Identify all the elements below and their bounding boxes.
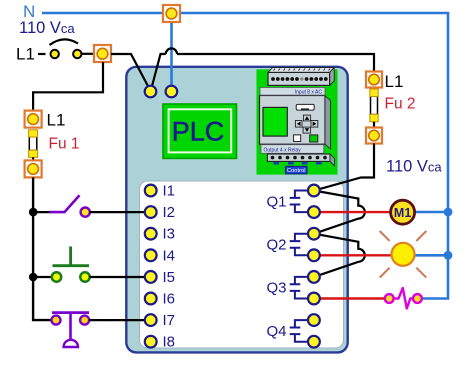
wire N bus blue	[42, 13, 448, 299]
relay contact Q1	[267, 185, 320, 218]
relay contact Q4	[267, 314, 320, 347]
svg-text:Q3: Q3	[267, 280, 287, 297]
terminal X6 below Fu2	[366, 128, 382, 144]
node rail-S1	[29, 208, 38, 217]
svg-text:Output 4 x Relay: Output 4 x Relay	[264, 147, 302, 153]
svg-text:110 Vca: 110 Vca	[19, 19, 75, 37]
svg-text:Q4: Q4	[267, 323, 287, 340]
input labels I1-I8	[163, 183, 176, 351]
svg-text:PLC: PLC	[172, 117, 225, 147]
svg-text:L1: L1	[385, 72, 404, 91]
wire blue drop to PLC	[170, 22, 173, 88]
svg-text:M1: M1	[394, 206, 411, 220]
wire rail to S1	[33, 211, 50, 213]
svg-text:I8: I8	[163, 334, 176, 351]
pushbutton S2 green	[52, 247, 90, 282]
svg-text:Fu 2: Fu 2	[385, 96, 416, 113]
wire Q2 to lamp red	[320, 254, 394, 256]
wire L1 to breaker	[38, 53, 46, 55]
svg-text:L1: L1	[47, 110, 66, 129]
svg-text:110 Vca: 110 Vca	[386, 158, 442, 176]
wire X1 to PLC terminal	[111, 54, 150, 89]
wire Fu2 down to Q1	[315, 144, 374, 191]
PLC input terminal A1	[145, 86, 157, 98]
svg-text:Q2: Q2	[267, 237, 287, 254]
relay contact Q3	[267, 271, 320, 304]
wire Q2 to Q3 with hop over lamp wire	[314, 234, 365, 277]
svg-text:I2: I2	[163, 204, 176, 221]
limit switch S3 purple	[52, 313, 90, 347]
PLC inputs I1-I8	[145, 185, 157, 348]
wire S3 to I7	[89, 319, 145, 321]
svg-text:I5: I5	[163, 269, 176, 286]
wire Q1 to Q2 with hop over M1 wire	[314, 191, 365, 234]
wire S1 to I2	[90, 211, 145, 213]
svg-text:Control: Control	[287, 168, 306, 174]
wire hop over blue drop	[166, 48, 177, 54]
PLC input terminal A2	[166, 86, 178, 98]
svg-text:L1: L1	[16, 45, 35, 64]
svg-text:I1: I1	[163, 183, 176, 200]
wire breaker to terminal	[82, 53, 94, 55]
fuse Fu1	[29, 130, 38, 161]
svg-text:Q1: Q1	[267, 193, 287, 210]
terminal X4 below Fu1	[25, 160, 42, 177]
breaker Q0	[50, 39, 82, 58]
terminal X1	[94, 45, 111, 62]
svg-text:Fu 1: Fu 1	[49, 136, 80, 153]
PLC module picture U1	[257, 68, 338, 175]
wire PLC terminal up and over to Fu2, hop over blue	[152, 54, 375, 88]
motor M1	[391, 200, 415, 224]
svg-text:I6: I6	[163, 291, 176, 308]
node bus-M1	[444, 208, 453, 217]
wire Q3 to heater red	[320, 297, 385, 299]
wire rail to S2	[33, 276, 52, 278]
terminal X2 on N line	[163, 5, 180, 22]
wire S2 to I5	[90, 276, 145, 278]
svg-text:I7: I7	[163, 312, 176, 329]
svg-text:I3: I3	[163, 226, 176, 243]
wire Q1 to M1 red	[320, 211, 392, 213]
wire X1 down to L1 terminal	[33, 62, 103, 111]
terminal X5 L1 right	[366, 72, 382, 88]
node rail-S2	[29, 273, 38, 282]
node bus-lamp	[444, 251, 453, 260]
wire blue lamp to bus	[414, 254, 448, 257]
svg-text:I4: I4	[163, 247, 176, 264]
lamp H1	[380, 231, 427, 278]
svg-text:Input 8 x AC: Input 8 x AC	[295, 90, 323, 96]
PLC logo box	[163, 104, 237, 158]
heater E1	[385, 288, 422, 309]
PLC body enclosure	[126, 67, 347, 353]
fuse Fu2	[370, 89, 378, 128]
terminal X3 L1	[25, 111, 42, 128]
PLC inner I/O panel	[140, 181, 344, 348]
relay contact Q2	[267, 228, 320, 261]
wire left rail	[33, 177, 52, 320]
wire blue M1 to bus	[414, 211, 448, 214]
contact S1 purple NO	[50, 195, 90, 216]
